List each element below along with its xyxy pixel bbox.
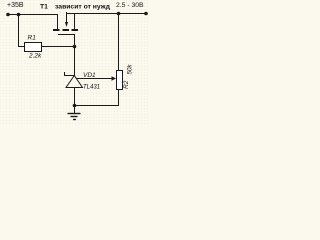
wire: gate node down to TL431 cathode	[74, 47, 76, 76]
VD1 cathode bar with zener tick	[65, 72, 75, 76]
node: +35V terminal	[6, 13, 10, 17]
transistor T1 (MOSFET)	[53, 12, 78, 47]
svg-text:VD1: VD1	[83, 72, 96, 79]
node: R1 tap junction	[17, 13, 21, 17]
svg-text:2.5 - 30В: 2.5 - 30В	[116, 2, 144, 9]
svg-text:зависит от нужд: зависит от нужд	[55, 4, 111, 11]
transistor T1 channel dashes	[53, 29, 60, 31]
node: gate junction	[73, 45, 77, 49]
VD1 triangle	[66, 76, 83, 88]
svg-text:2.2k: 2.2k	[28, 53, 42, 60]
resistor R1	[25, 43, 42, 52]
wiper wire from TL431 ref to R2	[76, 78, 113, 80]
svg-text:R1: R1	[28, 35, 37, 42]
svg-text:+35В: +35В	[7, 2, 24, 9]
svg-text:TL431: TL431	[83, 84, 100, 90]
wire: TL431 anode to bottom rail	[74, 88, 76, 106]
transistor T1 gate bar	[58, 35, 75, 47]
node: output junction to R2	[117, 12, 121, 16]
svg-text:50k: 50k	[127, 64, 134, 75]
wire: transistor source lead	[74, 14, 76, 30]
transistor T1 body lead with arrow	[66, 12, 68, 23]
ground	[68, 106, 81, 120]
wire: R1 right side to gate node	[42, 46, 75, 48]
wire: +35V input rail to transistor drain	[8, 15, 58, 30]
wire: R1 feed from rail junction	[19, 15, 25, 47]
wire: output rail from transistor source to right terminal	[67, 13, 147, 15]
resistor R2 (potentiometer)	[117, 71, 123, 90]
wire: top rail junction down to R2 top	[118, 14, 120, 71]
shunt regulator VD1 TL431	[65, 72, 83, 88]
svg-text:R2: R2	[123, 80, 130, 89]
node: output terminal	[144, 12, 148, 16]
node: ground junction	[73, 104, 77, 108]
svg-text:T1: T1	[40, 4, 48, 11]
wire: bottom rail to R2 bottom	[75, 90, 119, 106]
wiper arrowhead	[112, 76, 117, 80]
background	[0, 0, 150, 124]
